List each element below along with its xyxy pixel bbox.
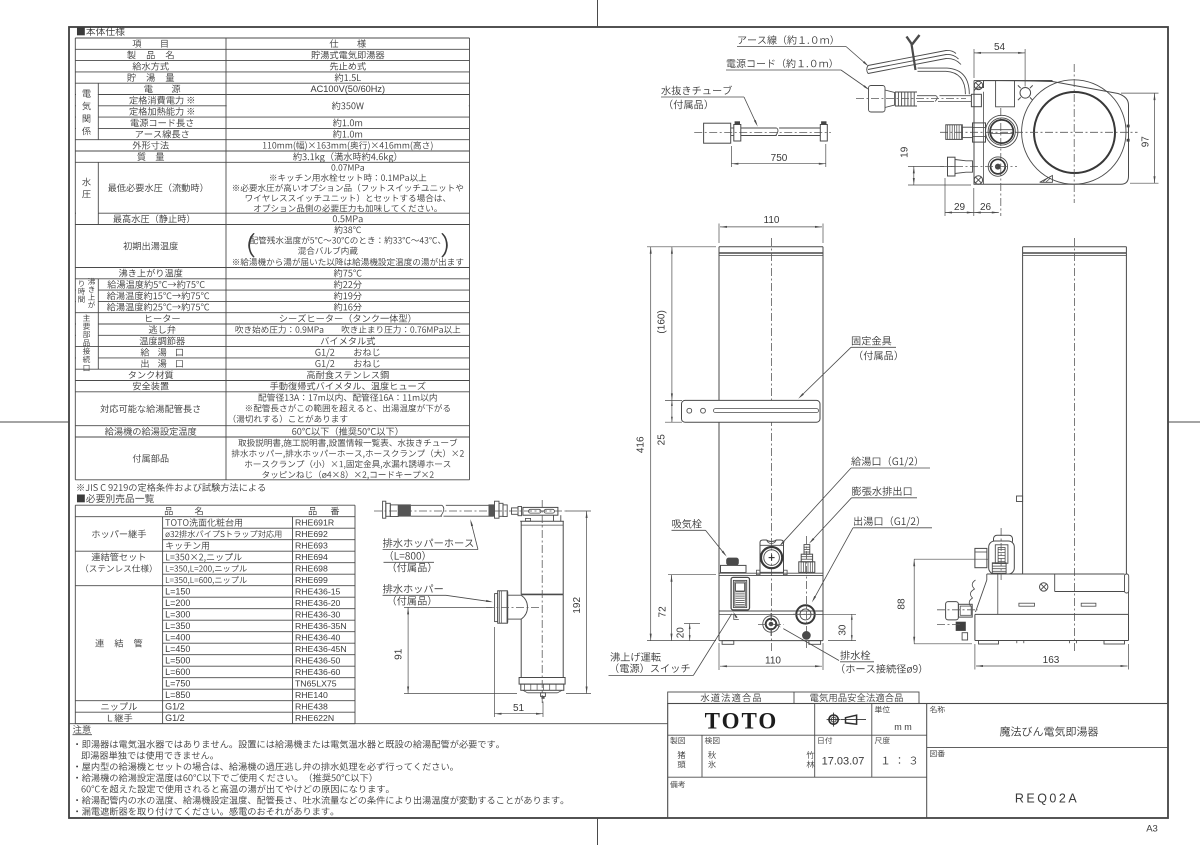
tank center crosshair	[940, 131, 1138, 133]
dim 20	[684, 623, 700, 625]
bracket label	[852, 336, 891, 345]
outlet circle	[796, 605, 814, 623]
svg-text:RHE691R: RHE691R	[295, 518, 334, 528]
dim (160)	[671, 247, 673, 401]
raised box on top	[996, 81, 1015, 107]
svg-text:L=450: L=450	[165, 644, 190, 654]
front view centerline	[771, 238, 773, 652]
dim 91	[404, 606, 492, 608]
title block frame	[668, 704, 1168, 819]
expansion outlet fitting	[760, 540, 784, 572]
svg-text:RHE436-45N: RHE436-45N	[295, 644, 347, 654]
hopper label	[383, 584, 443, 593]
svg-text:416: 416	[636, 436, 647, 453]
svg-text:26: 26	[980, 202, 992, 213]
dim 416	[647, 246, 716, 248]
notes box top line	[69, 723, 668, 725]
spec table grid	[75, 37, 469, 39]
dim 29 26	[944, 178, 946, 216]
svg-text:29: 29	[954, 202, 966, 213]
JIS note	[77, 483, 265, 491]
dim 192	[566, 510, 591, 512]
side valve left box	[975, 548, 987, 567]
center mark top	[597, 0, 599, 27]
spec table group labels	[83, 90, 91, 98]
dim 750	[730, 146, 732, 167]
side louvers	[1019, 603, 1035, 606]
side view cylinder	[1023, 246, 1127, 248]
svg-text:97: 97	[1140, 136, 1151, 148]
hose right clamp	[489, 504, 495, 516]
switch label	[610, 652, 660, 661]
front feet	[722, 641, 734, 645]
valve hex fitting	[973, 123, 986, 142]
top-left screw	[974, 81, 982, 89]
side base screw	[1040, 583, 1048, 591]
hook tab	[734, 614, 739, 619]
svg-text:RHE436-35N: RHE436-35N	[295, 621, 347, 631]
hose tube	[411, 504, 442, 506]
dim 51	[494, 627, 496, 717]
svg-text:20: 20	[676, 627, 687, 639]
drain tube label	[661, 86, 732, 95]
fixing bracket	[682, 400, 821, 422]
hopper body lower	[520, 619, 522, 677]
side valve centerlines	[1000, 528, 1002, 580]
svg-text:AC100V(50/60Hz): AC100V(50/60Hz)	[311, 84, 386, 94]
svg-text:RHE698: RHE698	[295, 564, 328, 574]
front view cylinder	[719, 246, 823, 248]
earth wire leader	[846, 47, 867, 65]
dim 110 bottom	[718, 643, 720, 670]
power plug	[869, 86, 886, 113]
drain label	[840, 651, 870, 660]
spec table header	[77, 27, 125, 36]
drain dark dot	[803, 632, 811, 640]
tank inner circle bold	[1034, 92, 1115, 173]
parts table grid	[75, 504, 355, 506]
power switch	[731, 577, 749, 610]
cord body fitting	[971, 94, 981, 106]
drain tube centerline	[694, 132, 831, 134]
dim 19	[908, 165, 944, 167]
notes text	[76, 740, 499, 749]
top view: power cord labels	[738, 35, 832, 44]
svg-text:RHE436-60: RHE436-60	[295, 667, 341, 677]
svg-text:17.03.07: 17.03.07	[822, 755, 865, 767]
drain fitting left	[948, 157, 956, 176]
labels right side	[851, 456, 917, 467]
svg-text:RHE699: RHE699	[295, 575, 328, 585]
front base block	[719, 572, 823, 574]
svg-text:RHE436-30: RHE436-30	[295, 610, 341, 620]
hopper hose centerline	[374, 510, 568, 512]
svg-text:88: 88	[897, 598, 908, 610]
title block labels	[875, 706, 890, 713]
svg-text:L=850: L=850	[165, 690, 190, 700]
tank outer circle	[1022, 80, 1126, 184]
svg-text:RHE436-40: RHE436-40	[295, 633, 341, 643]
third angle projection symbol	[829, 715, 838, 724]
svg-text:RHE692: RHE692	[295, 529, 328, 539]
hopper joint line	[521, 593, 563, 595]
svg-text:72: 72	[657, 606, 668, 618]
svg-text:25: 25	[656, 434, 667, 446]
svg-text:L=400: L=400	[165, 633, 190, 643]
power cord to body	[918, 68, 970, 94]
hopper drain tab	[541, 693, 546, 697]
svg-text:G1/2: G1/2	[165, 713, 185, 723]
spec table value column	[330, 39, 366, 47]
warning triangle	[1040, 176, 1053, 183]
svg-text:REQ02A: REQ02A	[1015, 791, 1079, 805]
dim 25	[665, 399, 682, 401]
svg-text:G1/2: G1/2	[165, 702, 185, 712]
power cord leader	[841, 70, 868, 89]
right edge tabs	[1127, 125, 1130, 128]
svg-text:54: 54	[994, 42, 1006, 53]
svg-text:192: 192	[572, 597, 583, 614]
svg-text:RHE436-20: RHE436-20	[295, 598, 341, 608]
svg-text:TOTO: TOTO	[705, 708, 779, 733]
hopper body upper	[520, 521, 522, 594]
svg-text:110: 110	[765, 655, 781, 666]
lower circle drain plan	[988, 157, 1007, 176]
hopper inlet centerline	[486, 606, 540, 608]
body top edge full	[984, 80, 1053, 82]
hot water outlet fitting	[804, 545, 810, 555]
earth wire bundle	[868, 50, 956, 65]
hopper downpipe	[553, 515, 555, 521]
bottom-left screw	[974, 176, 982, 184]
dim 54	[973, 49, 975, 78]
dim 97	[1121, 92, 1159, 94]
svg-text:L=200: L=200	[165, 598, 190, 608]
air intake knob	[726, 558, 739, 566]
side valve assembly	[994, 535, 1013, 544]
svg-text:L=150: L=150	[165, 587, 190, 597]
top view body outline	[974, 81, 1129, 185]
drain circle	[763, 616, 779, 632]
dim 88	[914, 558, 988, 560]
drain tube left collar	[731, 127, 734, 129]
small circle with tick marks	[1020, 88, 1031, 99]
side feet	[979, 641, 999, 645]
svg-text:RHE436-50: RHE436-50	[295, 656, 341, 666]
svg-text:TN65LX75: TN65LX75	[295, 679, 337, 689]
hopper hose left fitting	[383, 501, 386, 518]
svg-text:51: 51	[513, 703, 525, 714]
parts table text	[165, 507, 203, 515]
body left inner line	[982, 92, 984, 184]
spec table item column	[133, 40, 168, 48]
hose nut	[512, 508, 519, 514]
hose clamp dark	[398, 504, 411, 516]
center mark bottom	[597, 818, 599, 845]
cable tie Y	[912, 44, 916, 70]
hopper top cap	[520, 520, 564, 522]
hopper base	[519, 678, 565, 685]
side base upper	[987, 573, 1125, 575]
hose label leader	[471, 522, 478, 550]
side valve threads	[992, 563, 1006, 565]
dim 30	[816, 613, 856, 615]
drain tube right collar	[820, 125, 827, 142]
svg-text:750: 750	[771, 153, 788, 164]
center mark left	[0, 421, 69, 423]
hopper side inlet flange	[495, 594, 498, 622]
svg-text:110: 110	[764, 215, 780, 226]
svg-text:A3: A3	[1146, 823, 1158, 834]
parts list header	[77, 494, 154, 503]
hopper centerline	[541, 500, 543, 703]
air intake label	[672, 519, 701, 528]
dim 72	[668, 574, 716, 576]
svg-text:19: 19	[899, 146, 910, 158]
side base lower	[974, 614, 976, 640]
side base sloped front	[976, 580, 987, 612]
center mark right	[1168, 421, 1200, 423]
svg-text:L=750: L=750	[165, 679, 190, 689]
svg-text:RHE694: RHE694	[295, 552, 328, 562]
svg-text:L=350: L=350	[165, 621, 190, 631]
cord to body thin section	[917, 95, 936, 97]
side base mid line	[975, 613, 1129, 615]
side view centerline	[1074, 238, 1076, 652]
svg-text:91: 91	[394, 648, 405, 660]
knurled knob	[946, 125, 963, 140]
side front fitting	[946, 602, 959, 620]
hopper label leader	[446, 595, 491, 601]
svg-text:m m: m m	[894, 722, 912, 732]
bracket tab side	[1017, 496, 1023, 502]
drain tube leader	[744, 97, 757, 124]
drain tube pipe	[741, 127, 777, 129]
bracket leader	[801, 347, 852, 396]
svg-text:L=500: L=500	[165, 656, 190, 666]
cord strain relief corrugation	[895, 91, 917, 93]
hopper inlet slotted pipe	[523, 507, 558, 515]
compliance boxes	[668, 692, 919, 704]
svg-text:RHE693: RHE693	[295, 541, 328, 551]
svg-text:RHE140: RHE140	[295, 690, 328, 700]
dim 163	[974, 644, 976, 670]
svg-text:(160): (160)	[656, 310, 667, 333]
hopper elbow neck and dome	[507, 594, 521, 596]
svg-text:30: 30	[837, 624, 848, 636]
svg-text:RHE438: RHE438	[295, 702, 328, 712]
dim 110 top	[718, 224, 720, 244]
notes title	[73, 725, 91, 734]
hose label	[383, 538, 473, 547]
svg-text:RHE622N: RHE622N	[295, 713, 334, 723]
svg-text:L=600: L=600	[165, 667, 190, 677]
outlet centerline vertical	[806, 536, 808, 648]
svg-text:RHE436-15: RHE436-15	[295, 587, 341, 597]
svg-text:163: 163	[1043, 655, 1060, 666]
svg-text:L=300: L=300	[165, 610, 190, 620]
drain tube plug block	[704, 123, 731, 143]
valve circle left	[986, 115, 1018, 147]
